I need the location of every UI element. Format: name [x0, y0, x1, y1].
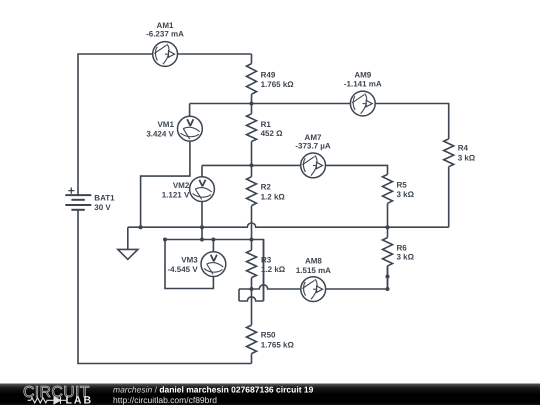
- svg-text:R5: R5: [397, 180, 408, 189]
- svg-text:-6.237 mA: -6.237 mA: [146, 29, 184, 38]
- wire R49 leads: [251, 54, 253, 104]
- svg-text:R2: R2: [261, 183, 272, 192]
- ammeter AM8: [301, 277, 326, 302]
- battery BAT1 plates: [65, 195, 91, 210]
- svg-text:VM2: VM2: [173, 181, 190, 190]
- wire node2 horizontal through AM7 to R5: [202, 165, 388, 174]
- wire VM1 bottom to ground rail: [141, 141, 190, 227]
- wire VM3 loop left and bottom: [165, 240, 213, 289]
- svg-text:1.2 kΩ: 1.2 kΩ: [261, 265, 286, 274]
- svg-text:http://circuitlab.com/cf89brd: http://circuitlab.com/cf89brd: [113, 395, 217, 405]
- wire R1 leads: [251, 104, 253, 166]
- svg-text:R6: R6: [397, 243, 408, 252]
- svg-text:R49: R49: [261, 71, 276, 80]
- wire left rail top: battery to top-left corner: [78, 54, 252, 195]
- resistor R49: [247, 64, 257, 95]
- wire R4 bottom lead: [448, 167, 450, 228]
- node dot R1-R2-AM7-VM2: [250, 163, 254, 167]
- wire detour vertical overlay on R3 label: [263, 240, 265, 302]
- svg-text:marchesin / daniel marchesin 0: marchesin / daniel marchesin 027687136 c…: [113, 385, 314, 395]
- svg-text:1.121 V: 1.121 V: [162, 190, 190, 199]
- node dot R6 lead upper: [386, 275, 390, 279]
- wire battery bottom to bottom rail: [78, 210, 252, 364]
- svg-text:AM9: AM9: [354, 70, 371, 79]
- voltmeter VM2: [190, 177, 215, 202]
- footer bar: [0, 384, 540, 405]
- svg-text:452 Ω: 452 Ω: [261, 129, 284, 138]
- node dot wire239 left end: [163, 238, 167, 242]
- resistor R5: [383, 174, 393, 203]
- node dot R3 bottom junction: [250, 287, 254, 291]
- svg-text:3 kΩ: 3 kΩ: [397, 190, 415, 199]
- ammeter AM9: [350, 91, 375, 116]
- wire node3 horizontal y239.5: [165, 240, 264, 302]
- node dot VM2 bottom: [200, 238, 204, 242]
- wire VM2 bottom stem through ground rail: [201, 202, 203, 240]
- svg-text:1.2 kΩ: 1.2 kΩ: [261, 193, 286, 202]
- wire R3 leads: [251, 240, 253, 326]
- resistor R50: [247, 325, 257, 354]
- node dot R2-R3 junction: [250, 238, 254, 242]
- ammeter AM7: [301, 153, 326, 178]
- svg-text:VM3: VM3: [181, 255, 198, 264]
- wire R5 bottom lead: [387, 203, 389, 227]
- wire VM2 top stem: [201, 165, 203, 177]
- svg-text:1.515 mA: 1.515 mA: [296, 266, 331, 275]
- svg-text:VM1: VM1: [157, 120, 174, 129]
- battery plus sign: [68, 188, 74, 194]
- wire detour left side: [238, 289, 240, 301]
- node dot VM3 top: [211, 238, 215, 242]
- wire R50 bottom lead: [251, 354, 253, 364]
- svg-text:-373.7 µA: -373.7 µA: [295, 142, 331, 151]
- svg-text:R4: R4: [458, 143, 469, 152]
- resistor R4: [444, 139, 454, 167]
- node dot AM8 corner: [386, 287, 390, 291]
- node dot VM2 ground: [200, 225, 204, 229]
- node dot R5-R6 ground: [386, 225, 390, 229]
- svg-text:BAT1: BAT1: [94, 194, 115, 203]
- svg-text:R50: R50: [261, 331, 276, 340]
- resistor R1: [247, 114, 257, 142]
- svg-text:LAB: LAB: [66, 395, 94, 405]
- svg-text:R1: R1: [261, 120, 272, 129]
- wire VM3 top stem: [212, 240, 214, 252]
- voltmeter VM3: [201, 252, 226, 277]
- svg-text:-4.545 V: -4.545 V: [167, 265, 198, 274]
- wire R6 leads: [387, 227, 389, 289]
- resistor R6: [383, 238, 393, 266]
- voltmeter VM1: [178, 116, 203, 141]
- svg-text:3.424 V: 3.424 V: [146, 130, 174, 139]
- resistor R2: [247, 177, 257, 206]
- svg-text:1.765 kΩ: 1.765 kΩ: [261, 80, 295, 89]
- logo resistor-diode art: [28, 397, 67, 404]
- svg-text:30 V: 30 V: [94, 203, 111, 212]
- wire VM1 top stem: [189, 104, 191, 117]
- wire detour bottom with hop over R3 column: [239, 297, 264, 301]
- node dot VM1 ground: [139, 225, 143, 229]
- svg-text:3 kΩ: 3 kΩ: [458, 153, 476, 162]
- wire AM8 right vertical to R6: [387, 266, 389, 289]
- resistor R3: [247, 250, 257, 277]
- svg-text:1.765 kΩ: 1.765 kΩ: [261, 340, 295, 349]
- svg-text:3 kΩ: 3 kΩ: [397, 253, 415, 262]
- ammeter AM1: [153, 42, 178, 67]
- wire ground stem: [127, 227, 129, 249]
- svg-text:-1.141 mA: -1.141 mA: [344, 79, 382, 88]
- svg-text:R3: R3: [261, 255, 272, 264]
- ground symbol: [118, 249, 138, 259]
- wire ground rail with hop over R2 column: [128, 223, 449, 227]
- wire R2 leads: [251, 165, 253, 239]
- wire node1 horizontal through AM9 to R4: [190, 104, 449, 139]
- svg-text:AM8: AM8: [305, 256, 322, 265]
- wire AM8 row with hop over x263.5: [239, 285, 388, 289]
- node dot R49-R1-VM1-AM9: [250, 102, 254, 106]
